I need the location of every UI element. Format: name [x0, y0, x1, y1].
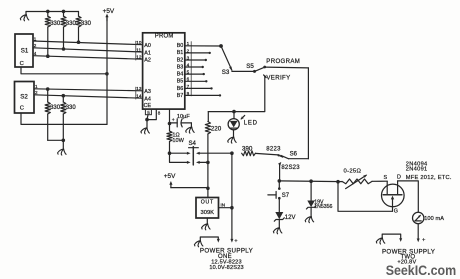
svg-text:10µF: 10µF: [177, 114, 190, 120]
ground for PROM pins 5 and 8: [141, 120, 150, 134]
transistor type labels: [406, 161, 452, 181]
svg-text:+: +: [172, 118, 175, 124]
svg-text:220: 220: [211, 125, 222, 132]
S6 8223 contact tick: [277, 154, 282, 157]
zener diode D1 12V: [274, 198, 295, 228]
svg-text:B0: B0: [177, 43, 184, 49]
svg-text:8: 8: [158, 111, 161, 116]
svg-text:10W: 10W: [172, 138, 184, 144]
svg-text:A4: A4: [144, 96, 151, 102]
ground for regulator 309K: [202, 218, 211, 230]
wire zener bus (82S23 node to FET source): [279, 180, 342, 183]
wire S6 common to program rail: [289, 158, 309, 160]
wire gate tie loop: [338, 182, 393, 212]
wire PROM B2 (pin 3) to S3 contact: [185, 59, 206, 61]
ground for D2: [305, 217, 314, 223]
svg-text:S7: S7: [282, 193, 290, 199]
wire PROGRAM contact to right rail: [265, 66, 309, 69]
PROM U1 body: [143, 33, 185, 109]
ground for S1 pull-down resistors: [20, 12, 29, 21]
switch S2 (BCD address switch): [15, 82, 39, 114]
PROM pin 5 cell (CE to ground): [145, 109, 151, 115]
switch S4 (DPST program power): [189, 141, 199, 165]
power supply one negative bracket to ground: [200, 237, 220, 243]
svg-text:2N4091: 2N4091: [406, 166, 428, 172]
junction R6 bottom / S4: [168, 151, 172, 155]
node junction R2 top: [62, 10, 66, 14]
svg-text:8223: 8223: [266, 146, 281, 152]
power supply two + terminal: [417, 238, 426, 244]
wire PROM B4 (pin 5) to S3 contact: [185, 73, 204, 75]
svg-text:330: 330: [50, 105, 61, 111]
power supply two negative bracket to ground: [382, 234, 402, 242]
svg-text:+: +: [422, 238, 426, 244]
svg-text:14: 14: [136, 94, 142, 99]
S3 contact B6: [210, 87, 212, 89]
svg-text:PROGRAM: PROGRAM: [266, 58, 300, 65]
svg-text:1N5356: 1N5356: [314, 204, 332, 210]
wire +5V arrow to regulator riser: [171, 187, 208, 189]
wire S1 pin2 to PROM A1 (pin 11): [33, 48, 143, 52]
junction S1 C / +5V rail: [105, 72, 109, 76]
svg-text:330: 330: [81, 21, 92, 27]
wire PROM B3 (pin 4) to S3 contact: [185, 66, 203, 68]
svg-text:B6: B6: [177, 86, 184, 92]
junction pin5/pin8 ground node: [145, 118, 149, 122]
junction FET gate tie: [336, 180, 340, 184]
ground for power supply one: [194, 241, 203, 247]
svg-text:S1: S1: [21, 48, 29, 55]
resistor R6 1 ohm 10W: [167, 124, 185, 154]
svg-text:VERIFY: VERIFY: [266, 75, 290, 82]
wire 390 to 8223 contact: [255, 153, 278, 155]
wire S3 pole to S5 pole: [232, 70, 255, 72]
svg-text:330: 330: [50, 21, 61, 27]
S5 PROGRAM contact: [263, 66, 266, 69]
resistor R8 390: [242, 146, 256, 156]
junction R4 top on A3 line: [46, 87, 50, 91]
wire +5V rail down to switch commons: [106, 17, 108, 125]
+5V supply symbol (top): [103, 8, 115, 21]
S3 contact B0 (selected): [219, 44, 223, 48]
rotary switch S3 wiper: [221, 46, 232, 76]
power supply two label: [382, 249, 435, 266]
ground for S2 resistors: [58, 140, 67, 155]
svg-text:MFE 2012, ETC.: MFE 2012, ETC.: [406, 175, 452, 181]
junction R1 bottom on A2 line: [46, 54, 50, 58]
wire FET drain to meter: [398, 181, 419, 212]
S3 contact B4: [203, 73, 205, 75]
wire power supply one + rail: [231, 153, 233, 239]
resistor R5 330 (S2 bit2 pull): [61, 96, 77, 141]
resistor R3 330 (S1 bit4 pull): [76, 12, 92, 43]
svg-text:C: C: [20, 105, 24, 111]
svg-text:B4: B4: [177, 72, 184, 78]
svg-text:B3: B3: [177, 64, 184, 70]
S3 contact B5: [205, 80, 207, 82]
junction R3 bottom on A0 line: [77, 40, 81, 44]
resistor R1 330 (S1 bit1 pull): [45, 11, 61, 56]
junction +5V node above regulator: [206, 187, 210, 191]
svg-text:100 mA: 100 mA: [424, 216, 444, 222]
junction R2 bottom on A1 line: [62, 47, 66, 51]
S5 VERIFY contact tick: [263, 75, 266, 78]
ground for power supply two: [376, 238, 385, 244]
wire PROM B5 (pin 6) to S3 contact: [185, 80, 207, 82]
svg-text:B7: B7: [177, 93, 184, 99]
svg-text:0-25Ω: 0-25Ω: [344, 169, 362, 175]
svg-text:OUT: OUT: [201, 199, 214, 205]
svg-text:12: 12: [136, 55, 142, 60]
wire S2 pin1 to PROM A3 (pin 13): [34, 89, 143, 91]
svg-text:B5: B5: [177, 79, 184, 85]
svg-text:S4: S4: [189, 141, 197, 147]
junction 82S23 line / zener line: [278, 179, 282, 183]
wire S2 common C to +5V rail: [21, 113, 107, 124]
PROM right pin labels: [177, 43, 184, 99]
S3 contact B3: [202, 66, 204, 68]
zener diode D2 1N5356 19V: [306, 181, 332, 217]
LED indicator: [228, 112, 239, 138]
PROM right pin number column (1,2,3,4,5,6,7,9): [187, 41, 192, 96]
junction S4 bottom / +5V riser: [206, 161, 210, 165]
node junction R1 top: [46, 10, 50, 14]
+5V supply symbol (regulator output): [164, 173, 176, 187]
resistor R4 330 (S2 bit1 pull): [45, 89, 61, 140]
svg-text:B2: B2: [177, 57, 184, 63]
svg-text:S: S: [384, 175, 388, 181]
switch S5 pole junction: [253, 70, 256, 73]
svg-text:PROM: PROM: [155, 34, 174, 40]
svg-text:330: 330: [66, 21, 77, 27]
junction supply rail / 390 line: [230, 151, 234, 155]
power supply one + terminal: [230, 238, 238, 244]
meter M1 100 mA: [413, 212, 445, 223]
svg-text:D: D: [397, 175, 401, 181]
rheostat R9 0-25 ohm: [342, 169, 372, 189]
wire S1 common C to +5V rail: [21, 67, 107, 74]
svg-text:S5: S5: [246, 63, 254, 70]
ground for LED: [228, 137, 237, 143]
wire S4 top-right contact to supply rail: [196, 152, 232, 155]
switch S5 PROGRAM/VERIFY selector arm: [246, 63, 264, 72]
svg-text:S6: S6: [290, 152, 298, 158]
power supply one label: [200, 247, 253, 271]
svg-text:A2: A2: [144, 58, 151, 64]
PROM left pin number column (13,14): [136, 86, 142, 99]
svg-text:B1: B1: [177, 50, 184, 56]
svg-text:A0: A0: [144, 43, 151, 49]
transistor Q1 JFET current limiter: [382, 175, 405, 215]
wire PROGRAM rail down to S6: [307, 68, 309, 159]
capacitor C1 10uF: [170, 114, 192, 127]
svg-text:390: 390: [242, 146, 253, 153]
svg-text:A1: A1: [144, 50, 151, 56]
junction R5 top on A4 line: [62, 94, 66, 98]
wire pin5 down to ground node: [147, 115, 148, 120]
junction at R5 bottom: [62, 139, 66, 143]
wire meter to power supply two +: [417, 224, 419, 240]
wire PROM B0 (pin 1) to S3 contact: [185, 45, 221, 47]
ground for C1: [186, 123, 195, 133]
svg-text:+5V: +5V: [164, 173, 176, 180]
regulator U2 309K: [196, 198, 219, 219]
svg-text:11: 11: [136, 47, 141, 52]
junction 19V zener tap: [309, 179, 313, 183]
svg-text:+5V: +5V: [103, 8, 115, 15]
wire S4 top-left contact: [170, 152, 191, 155]
wire S1 pin4 to PROM A2 (pin 12): [33, 56, 143, 60]
svg-text:13: 13: [136, 86, 142, 91]
svg-text:1: 1: [35, 84, 38, 89]
svg-text:+: +: [234, 238, 238, 244]
junction LED tap on verify line: [232, 110, 236, 114]
ground for D1: [273, 228, 282, 234]
svg-text:309K: 309K: [201, 210, 215, 216]
svg-text:A3: A3: [144, 89, 151, 95]
PROM pin 8 stub: [147, 109, 161, 120]
wire PROM B1 (pin 2) to S3 contact: [185, 52, 210, 54]
wire S4 bottom loop from R6 node: [170, 153, 191, 164]
svg-text:G: G: [394, 209, 398, 215]
S3 contact B1: [209, 52, 211, 54]
junction IN / PS1 rail: [230, 206, 234, 210]
switch S1 (BCD address switch): [15, 34, 37, 67]
svg-text:10.0V-82S23: 10.0V-82S23: [209, 265, 244, 271]
junction Vcc / C1 / R6: [168, 122, 172, 126]
svg-text:330: 330: [66, 105, 77, 111]
wire rheostat to FET source: [372, 180, 387, 182]
wire riser 220/S4 down to regulator OUT: [207, 162, 209, 197]
svg-text:82S23: 82S23: [281, 165, 300, 171]
svg-text:IN: IN: [221, 203, 226, 208]
svg-text:C: C: [20, 61, 24, 67]
switch S7 (program pulse): [268, 181, 290, 200]
wire ground rail to 330 resistor tops: [26, 11, 79, 13]
wire PROM B7 (pin 9) to S3 contact: [185, 94, 220, 96]
svg-text:12V: 12V: [285, 215, 296, 221]
S3 contact B7: [219, 94, 221, 96]
LED label with leader arrow: [241, 115, 258, 126]
svg-text:S3: S3: [222, 69, 230, 76]
svg-text:10: 10: [136, 40, 142, 45]
wire S1 pin1 to PROM A0 (pin 10): [33, 41, 143, 45]
wire PROM Vcc pin down: [169, 109, 171, 123]
resistor R2 330 (S1 bit2 pull): [61, 11, 77, 49]
switch S6 arm: [281, 155, 289, 158]
wire S4 bottom-right contact to +5V rail: [196, 161, 208, 164]
S6 82S23 contact: [278, 162, 281, 181]
resistor R7 220 (LED/verify pull-up): [205, 112, 222, 163]
wire PROM B6 (pin 7) to S3 contact: [185, 87, 212, 89]
regulator IN pin wire: [219, 203, 232, 208]
wire VERIFY contact down and left to LED/220 node: [208, 76, 264, 111]
wire S2 pin2 to PROM A4 (pin 14): [34, 95, 143, 98]
wire joining R4/R5 bottoms: [48, 139, 64, 141]
svg-text:SeekIC.com: SeekIC.com: [386, 263, 457, 278]
svg-text:CE: CE: [144, 103, 152, 109]
PROM left pin number column (10,11,12): [136, 40, 142, 60]
svg-text:S2: S2: [20, 94, 28, 101]
PROM left pin labels: [144, 43, 152, 109]
S3 contact B2: [205, 59, 207, 61]
svg-text:LED: LED: [244, 121, 258, 127]
